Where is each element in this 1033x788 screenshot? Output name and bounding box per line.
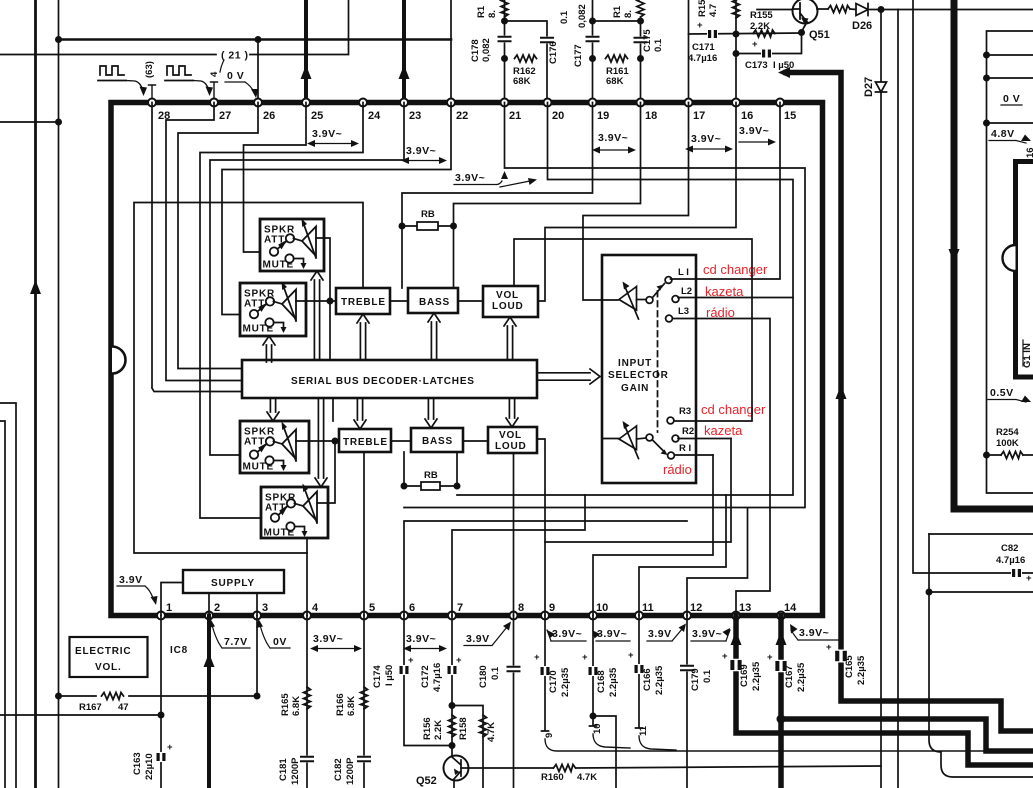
block BASS 1: [408, 288, 458, 313]
pin 3: [253, 612, 261, 620]
svg-text:2.2µ35: 2.2µ35: [654, 665, 665, 695]
pin 10: [589, 612, 597, 620]
capacitor C172 4.7u16 on pin7 line: [451, 616, 453, 758]
svg-text:D26: D26: [852, 20, 872, 32]
resistor R161: [606, 55, 628, 62]
wire pin17 vertical to top: [688, 0, 690, 102]
svg-text:+: +: [722, 651, 728, 662]
svg-text:+: +: [826, 642, 832, 653]
svg-text:4.8V: 4.8V: [991, 128, 1015, 140]
wire Q51 collector to D26: [817, 8, 881, 11]
node junction pin14 line: [777, 715, 786, 724]
node junction: [637, 18, 644, 25]
svg-text:C175: C175: [642, 29, 653, 52]
wire pin5 to treble2: [363, 452, 365, 616]
wire pin22 to SPKR1: [222, 103, 451, 315]
thick wire pin25 to top edge: [304, 0, 308, 102]
wire pin24 to SPKR4: [200, 103, 363, 519]
svg-text:2: 2: [214, 602, 220, 614]
svg-text:100K: 100K: [996, 438, 1019, 449]
svg-text:LOUD: LOUD: [492, 301, 524, 312]
svg-text:3.9V~: 3.9V~: [739, 125, 769, 137]
svg-text:14: 14: [784, 602, 797, 614]
svg-text:20: 20: [552, 110, 564, 122]
wire volloud2 out down to pin9 column: [537, 439, 619, 543]
svg-text:( 21 ): ( 21 ): [221, 50, 249, 62]
bump on inner box edge: [1003, 245, 1016, 271]
svg-text:0.1: 0.1: [559, 10, 570, 24]
svg-text:LOUD: LOUD: [495, 441, 527, 452]
svg-text:BASS: BASS: [419, 297, 450, 308]
pin 9: [541, 612, 549, 620]
svg-text:7: 7: [457, 602, 463, 614]
node junction: [589, 18, 596, 25]
pin 22: [447, 99, 455, 107]
pin27 stub tick: [211, 82, 218, 102]
thick wire pin13 down with arrow and C169: [736, 616, 1033, 766]
svg-text:4.7µ16: 4.7µ16: [996, 555, 1025, 566]
wire pin21 net S1: [404, 103, 805, 508]
svg-text:+: +: [767, 652, 773, 663]
pin28 stub tick: [149, 85, 156, 102]
resistor R154 partial on pin16 line: [733, 0, 740, 18]
svg-text:TREBLE: TREBLE: [343, 437, 388, 448]
block SPKR ATT 3: [240, 421, 309, 473]
svg-text:2.2µ35: 2.2µ35: [608, 667, 619, 697]
svg-text:3.9V~: 3.9V~: [312, 128, 342, 140]
svg-text:6.8K: 6.8K: [291, 696, 302, 716]
svg-text:10: 10: [592, 723, 603, 734]
wire stub left y715: [0, 714, 161, 716]
block SPKR ATT 4: [261, 484, 328, 539]
block SPKR ATT 2: [240, 282, 306, 337]
svg-text:R165: R165: [280, 693, 291, 716]
pin 26: [254, 99, 262, 107]
svg-text:SERIAL BUS DECODER·LATCHES: SERIAL BUS DECODER·LATCHES: [291, 376, 475, 387]
svg-text:INPUT: INPUT: [618, 358, 652, 369]
svg-text:L2: L2: [681, 286, 692, 297]
svg-text:C169: C169: [739, 664, 750, 687]
arrow serial to SPKR1 (long): [311, 271, 323, 359]
svg-text:15: 15: [784, 110, 796, 122]
svg-text:R158: R158: [458, 717, 469, 740]
wire pin15 to L1: [671, 103, 781, 280]
svg-text:VOL.: VOL.: [95, 662, 122, 673]
diode D27: [876, 82, 887, 92]
arrow on far-left bus: [30, 280, 41, 294]
node junction: [327, 298, 334, 305]
wire pin28 to serial: [152, 103, 242, 392]
svg-text:C178: C178: [470, 39, 481, 62]
svg-text:22: 22: [456, 110, 468, 122]
node junction: [332, 438, 339, 445]
node junction: [501, 18, 508, 25]
arrow serial to SPKR4 (long): [315, 399, 327, 487]
svg-text:1: 1: [166, 602, 172, 614]
svg-text:0,082: 0,082: [577, 4, 588, 28]
wire horizontal thin y54: [0, 0, 349, 55]
svg-text:VOL: VOL: [499, 430, 522, 441]
wire D27 vertical line: [880, 10, 882, 788]
resistor R166 6.8K on pin5 line: [363, 616, 365, 788]
svg-text:8.: 8.: [623, 10, 634, 18]
leader curve from (21): [220, 60, 224, 72]
wire treble1 to bass1: [390, 300, 408, 302]
lower attenuator triangle: [619, 426, 637, 450]
capacitor C181 1200P: [301, 756, 313, 763]
svg-text:G1 IN: G1 IN: [1022, 343, 1033, 368]
wire bass1 to volloud1: [458, 300, 483, 302]
svg-text:4.7K: 4.7K: [486, 722, 497, 742]
svg-text:IC8: IC8: [170, 645, 188, 656]
resistor R163 partial above: [501, 0, 508, 17]
node junction: [926, 589, 933, 596]
svg-text:SELECTOR: SELECTOR: [608, 370, 669, 381]
svg-text:8: 8: [518, 602, 524, 614]
pin 7: [448, 612, 456, 620]
thick wire pin14 down with arrow and C167: [778, 616, 784, 788]
svg-text:+: +: [456, 655, 462, 666]
svg-text:+: +: [628, 650, 634, 661]
svg-text:68K: 68K: [513, 76, 531, 87]
svg-text:+: +: [697, 20, 703, 31]
node junction: [637, 55, 644, 62]
pin 24: [359, 99, 367, 107]
arrow serial to TREBLE1: [357, 314, 369, 359]
svg-text:D27: D27: [863, 77, 875, 97]
wire bottom-left L1: [0, 403, 16, 788]
pin 16: [732, 99, 740, 107]
wire C176 branch: [505, 21, 548, 102]
thick line A with arrow to pin15 area: [786, 73, 1033, 732]
bump on IC8 left edge: [112, 347, 126, 374]
svg-text:9: 9: [549, 602, 555, 614]
svg-text:16: 16: [1025, 147, 1033, 158]
svg-text:C82: C82: [1001, 543, 1018, 554]
svg-text:R155: R155: [750, 10, 773, 21]
thick wire pin23 to top edge: [402, 0, 406, 102]
svg-text:R15: R15: [697, 0, 708, 17]
svg-text:2.2K: 2.2K: [750, 21, 770, 32]
svg-text:8.: 8.: [487, 10, 498, 18]
svg-text:4.7: 4.7: [708, 4, 719, 17]
svg-text:9: 9: [544, 733, 555, 738]
L contacts: [665, 277, 672, 284]
pin 13: [732, 612, 740, 620]
wire y78: [987, 77, 1033, 79]
svg-text:C168: C168: [596, 670, 607, 693]
pin 8: [510, 612, 518, 620]
capacitor C177: [587, 36, 599, 43]
svg-text:22µ10: 22µ10: [144, 753, 155, 780]
wire pin2 to supply: [208, 593, 210, 616]
capacitor C163 on pin1 line: [160, 616, 162, 788]
wire pin9 net: [545, 439, 731, 616]
svg-text:+: +: [582, 652, 588, 663]
wire horizontal 0V top bus: [59, 38, 452, 41]
node junction: [983, 52, 990, 59]
wire C173 branch y53.5: [736, 33, 802, 54]
capacitor C179 0.1 on pin12 line: [686, 616, 688, 788]
wire pin26 up to 0V bus: [257, 40, 259, 103]
wire spkr4 out: [317, 441, 335, 503]
svg-text:3.9V~: 3.9V~: [691, 133, 721, 145]
svg-text:C181: C181: [278, 758, 289, 781]
svg-text:C167: C167: [784, 665, 795, 688]
svg-text:10: 10: [596, 602, 608, 614]
capacitor C174 1u50 on pin6 line: [404, 616, 451, 746]
capacitor C176: [541, 37, 553, 44]
wire treble1-top loop to pin4 column: [134, 203, 363, 554]
svg-text:12: 12: [690, 602, 702, 614]
svg-text:2.2µ35: 2.2µ35: [796, 662, 807, 692]
svg-text:3.9V~: 3.9V~: [455, 172, 485, 184]
svg-text:R160: R160: [541, 772, 564, 783]
wire treble2 to bass2: [391, 440, 411, 442]
wire vertical far-left B: [58, 0, 60, 788]
resistor RB lower: [401, 452, 461, 490]
R contacts: [667, 417, 674, 424]
transistor Q52: [444, 756, 469, 781]
pin 25: [302, 99, 310, 107]
svg-text:27: 27: [219, 110, 231, 122]
node junction: [983, 120, 990, 127]
arrow serial to TREBLE2: [354, 399, 366, 429]
svg-text:+: +: [1026, 573, 1032, 584]
thick wire pin14 branch right: [781, 719, 1033, 751]
resistor R160 4.7K line: [468, 766, 881, 768]
wire horizontal top right edge: [881, 9, 1033, 11]
svg-text:cd changer: cd changer: [703, 262, 768, 277]
svg-text:C163: C163: [132, 752, 143, 775]
arrow serial to SPKR2: [263, 336, 275, 362]
wire pin17 to selector: [583, 103, 689, 301]
svg-text:3.9V: 3.9V: [119, 574, 143, 586]
svg-text:23: 23: [409, 110, 421, 122]
wire y592 to edge: [929, 591, 1033, 593]
pin 6: [400, 612, 408, 620]
pin 17: [685, 99, 693, 107]
arrow serial to SPKR3: [267, 399, 279, 421]
leader arrow 0V to pin 26: [245, 82, 254, 92]
svg-text:0 V: 0 V: [1003, 93, 1020, 105]
arrow serial to BASS2: [425, 399, 437, 428]
svg-text:3.9V~: 3.9V~: [406, 145, 436, 157]
svg-text:1200P: 1200P: [290, 757, 301, 785]
svg-text:3.9V~: 3.9V~: [406, 633, 436, 645]
svg-text:R166: R166: [335, 693, 346, 716]
svg-text:C170: C170: [548, 670, 559, 693]
svg-text:2.2µ35: 2.2µ35: [560, 667, 571, 697]
upper attenuator triangle: [619, 287, 637, 311]
wire pin26 to serial: [178, 103, 258, 369]
node junction: [501, 55, 508, 62]
block VOL LOUD 1: [483, 286, 538, 317]
node junction: [878, 6, 885, 13]
svg-text:VOL: VOL: [496, 290, 519, 301]
square wave symbol 2: [165, 66, 193, 81]
pin 2: [205, 612, 213, 620]
wire pin25 to SPKR2: [244, 103, 307, 253]
svg-text:L I: L I: [678, 267, 689, 278]
wire spkr3 out to treble2: [296, 440, 339, 442]
svg-text:0.1: 0.1: [653, 38, 664, 52]
svg-text:BASS: BASS: [422, 436, 453, 447]
capacitor C178: [499, 36, 511, 43]
svg-text:47: 47: [118, 702, 129, 713]
svg-text:C179: C179: [690, 668, 701, 691]
svg-text:3.9V~: 3.9V~: [799, 627, 829, 639]
pin 21: [501, 99, 509, 107]
svg-text:rádio: rádio: [663, 462, 692, 477]
node junction: [733, 31, 740, 38]
capacitor C168 2.2u35 on pin10 line: [590, 616, 597, 727]
arrow serial to VOLLOUD1: [504, 317, 516, 359]
wire Q51 base stub: [757, 9, 792, 11]
wire vertical x913 to C82: [913, 0, 1033, 573]
svg-text:C177: C177: [573, 44, 584, 67]
block BASS 2: [411, 428, 463, 452]
node junction: [255, 36, 262, 43]
resistor R? Q51 collector: [828, 6, 850, 13]
thin box corner x929: [929, 533, 1033, 535]
svg-text:0.1: 0.1: [490, 666, 501, 680]
svg-text:SUPPLY: SUPPLY: [211, 578, 255, 589]
pin 20: [544, 99, 552, 107]
svg-text:16: 16: [741, 110, 753, 122]
capacitor C165 electrolytic on thick line: [834, 650, 848, 663]
svg-text:4.7K: 4.7K: [577, 772, 597, 783]
svg-text:cd changer: cd changer: [701, 402, 766, 417]
resistor R165 6.8K on pin4 line: [306, 616, 308, 788]
resistor R156 2.2K on pin7 line: [449, 715, 456, 737]
pin 18: [637, 99, 645, 107]
wire y123: [987, 122, 1033, 124]
capacitor C82 electrolytic: [1011, 568, 1022, 578]
wire pin3 down to R167 line: [256, 616, 258, 697]
svg-text:1200P: 1200P: [345, 757, 356, 785]
svg-text:R1: R1: [476, 5, 487, 18]
svg-text:+: +: [534, 652, 540, 663]
wire pin20 net S2: [457, 103, 793, 496]
svg-text:L3: L3: [678, 306, 689, 317]
block SPKR ATT 1: [260, 219, 324, 272]
diode D26: [856, 4, 868, 16]
svg-text:R I: R I: [679, 443, 691, 454]
svg-text:(63): (63): [144, 61, 155, 78]
wire vertical bus far-left A: [34, 0, 37, 788]
block INPUT SELECTOR GAIN: [602, 255, 696, 483]
thick power line x954 with down arrow: [954, 0, 1033, 509]
wire pin11 riser: [639, 495, 726, 616]
node junction: [55, 119, 62, 126]
svg-text:68K: 68K: [606, 76, 624, 87]
svg-text:R156: R156: [422, 717, 433, 740]
pin 1: [157, 612, 165, 620]
svg-text:3.9V: 3.9V: [466, 633, 490, 645]
node junction: [733, 50, 740, 57]
wire pin7 net: [452, 495, 585, 616]
wire pin23 to SPKR3: [210, 103, 404, 456]
pin 4: [303, 612, 311, 620]
wire spkr2 out to treble1: [296, 300, 336, 302]
svg-text:4.7µ16: 4.7µ16: [432, 663, 443, 692]
svg-text:26: 26: [263, 110, 275, 122]
pin 28: [148, 99, 156, 107]
svg-text:GAIN: GAIN: [621, 383, 649, 394]
wiper contact lower: [646, 434, 653, 441]
svg-text:0V: 0V: [273, 636, 287, 648]
svg-text:RB: RB: [421, 209, 435, 220]
svg-text:C171: C171: [692, 42, 715, 53]
svg-text:R2: R2: [682, 426, 694, 437]
svg-text:Q51: Q51: [809, 29, 830, 41]
capacitor C182 1200P: [358, 756, 370, 763]
svg-text:I µ50: I µ50: [384, 665, 395, 686]
wire L3: [673, 319, 770, 616]
svg-text:kazeta: kazeta: [704, 423, 743, 438]
pin 27: [210, 99, 218, 107]
resistor R158 4.7K branch: [452, 706, 483, 788]
svg-text:R1: R1: [612, 5, 623, 18]
svg-text:3.9V: 3.9V: [648, 628, 672, 640]
wire spkr1 out: [316, 238, 330, 301]
svg-text:C172: C172: [420, 665, 431, 688]
wire pin4 to spkr4: [306, 538, 308, 616]
square wave symbol 1: [98, 66, 126, 81]
svg-text:0,082: 0,082: [481, 38, 492, 62]
wire C175 branch: [593, 21, 641, 102]
svg-text:24: 24: [368, 110, 381, 122]
capacitor C173 electrolytic: [761, 49, 772, 59]
leader arrow squarewave1 to pin 28: [126, 81, 143, 91]
svg-text:0.1: 0.1: [702, 669, 713, 683]
svg-text:11: 11: [642, 602, 654, 614]
wire pin8 to volloud2: [513, 453, 515, 616]
capacitor C175: [635, 37, 647, 44]
block TREBLE 1: [336, 288, 390, 314]
wire pin16 to volloud1 out: [538, 103, 736, 302]
thick wire pin2 down: [207, 616, 211, 788]
svg-text:5: 5: [369, 602, 375, 614]
svg-text:17: 17: [693, 110, 705, 122]
wire bass2 to volloud2: [463, 440, 488, 442]
svg-text:3.9V~: 3.9V~: [597, 628, 627, 640]
wire pin3 to supply: [256, 593, 258, 616]
block SERIAL BUS DECODER LATCHES: [242, 360, 537, 398]
wire pin12 riser: [687, 508, 748, 616]
svg-text:R3: R3: [679, 406, 691, 417]
wire L2: [678, 297, 793, 299]
pin 5: [360, 612, 368, 620]
svg-text:RB: RB: [424, 470, 438, 481]
svg-text:3.9V~: 3.9V~: [313, 633, 343, 645]
node junction: [589, 55, 596, 62]
svg-text:4: 4: [209, 71, 220, 77]
wire pin19 to RB1 left: [402, 103, 593, 227]
block ELECTRIC VOL: [70, 637, 148, 677]
svg-text:18: 18: [645, 110, 657, 122]
wire pin16 vertical to top: [735, 0, 737, 102]
svg-text:11: 11: [638, 725, 649, 736]
svg-text:2.2µ35: 2.2µ35: [751, 661, 762, 691]
wire pin19 vertical: [592, 0, 594, 102]
svg-text:2.2µ35: 2.2µ35: [856, 655, 867, 685]
pin 19: [589, 99, 597, 107]
wire pin27 to serial: [166, 103, 242, 381]
svg-text:19: 19: [597, 110, 609, 122]
svg-text:C165: C165: [844, 655, 855, 678]
